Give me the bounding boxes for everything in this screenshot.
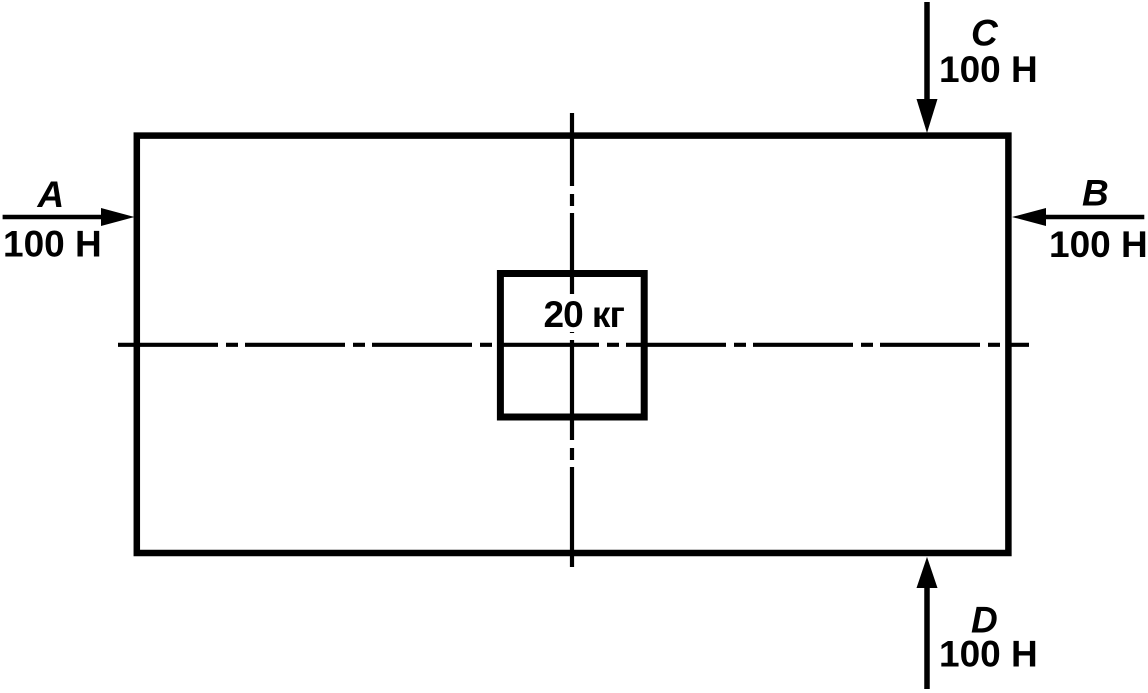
svg-text:100 Н: 100 Н	[1049, 224, 1148, 265]
force arrow B	[1012, 208, 1144, 226]
plate outline	[137, 136, 1009, 553]
horizontal centerline	[118, 343, 1029, 347]
svg-text:B: B	[1082, 173, 1109, 214]
vertical centerline	[570, 113, 574, 567]
svg-text:100 Н: 100 Н	[939, 49, 1038, 90]
svg-text:100 Н: 100 Н	[939, 634, 1038, 675]
svg-text:A: A	[37, 174, 65, 215]
svg-text:100 Н: 100 Н	[3, 224, 102, 265]
load square 20 kg	[500, 274, 644, 418]
svg-text:20 кг: 20 кг	[544, 294, 625, 335]
svg-text:C: C	[971, 13, 999, 54]
force arrow D	[917, 557, 938, 689]
force arrow C	[917, 2, 938, 133]
force arrow A	[3, 208, 135, 226]
